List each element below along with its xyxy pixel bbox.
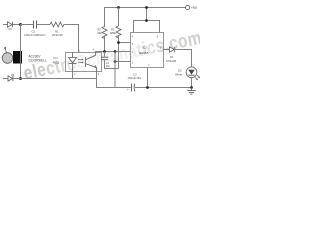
wire emitter down to ground rail	[97, 79, 116, 88]
IC2 pin1 wire to ground rail	[147, 68, 149, 88]
doorbell (gray gong + black coil box)	[2, 53, 13, 64]
resistor R3	[118, 8, 120, 27]
svg-text:+9V: +9V	[191, 6, 198, 10]
svg-text:IC2: IC2	[142, 46, 147, 50]
wire pin7 (y51)	[96, 51, 131, 53]
wire doorbell vertical	[20, 25, 22, 79]
wire down to ground rail	[114, 52, 116, 88]
wire pin6 (y42)	[119, 42, 131, 44]
svg-text:NE555: NE555	[139, 51, 149, 55]
ground symbol	[187, 88, 195, 95]
opto pin3 stub down	[96, 72, 98, 79]
+9V terminal	[186, 5, 190, 9]
opto light arrows	[78, 59, 84, 64]
wire pin3 out	[164, 49, 170, 51]
doorbell striker	[5, 49, 6, 53]
pins 4/8 supply staple	[146, 8, 148, 21]
wire pin2 (y61)	[115, 61, 131, 63]
wire D1 to LED corner	[175, 50, 192, 67]
svg-text:DOORBELL: DOORBELL	[29, 58, 48, 62]
svg-text:+: +	[127, 88, 129, 92]
svg-text:4N25: 4N25	[53, 61, 60, 65]
node R2 join	[103, 50, 106, 53]
node R3/pin6	[117, 41, 120, 44]
node pin1/rail	[146, 86, 149, 89]
svg-text:IC1: IC1	[54, 56, 59, 60]
opto phototransistor	[86, 53, 97, 72]
LED D2	[186, 67, 197, 78]
diode D1	[170, 47, 175, 52]
opto pin4 stub to top wire	[95, 52, 97, 53]
wire AC line in (top left)	[3, 24, 8, 26]
svg-text:100uF/16V: 100uF/16V	[128, 76, 142, 80]
wire R1 to opto (corner down)	[64, 25, 79, 53]
wire C1 to R1	[37, 24, 51, 26]
opto-coupler IC1 box	[66, 53, 102, 72]
node pin2	[114, 60, 117, 63]
LED emission arrows	[195, 75, 200, 80]
capacitor C3 (polarized, in rail)	[132, 84, 135, 92]
svg-text:40k: 40k	[97, 31, 102, 35]
resistor R1	[50, 22, 64, 27]
+9V supply rail	[104, 7, 185, 9]
diode D4	[8, 76, 13, 81]
svg-text:2K2/1W: 2K2/1W	[52, 33, 63, 37]
resistor R2	[104, 8, 106, 27]
node R3 cross	[114, 50, 117, 53]
capacitor C2	[104, 52, 106, 57]
LED to rail	[191, 78, 193, 88]
opto LED	[69, 53, 77, 72]
svg-text:100nF/400VAC: 100nF/400VAC	[24, 33, 46, 37]
opto pin2 stub down	[72, 72, 74, 79]
svg-text:White: White	[175, 72, 183, 76]
node LED/rail	[190, 86, 193, 89]
wire node to C1	[21, 24, 34, 26]
wire bottom left	[3, 78, 8, 80]
svg-text:680k: 680k	[110, 31, 116, 35]
svg-text:10n: 10n	[106, 65, 111, 68]
capacitor C1	[34, 21, 37, 29]
node rail R3 junction	[117, 6, 120, 9]
ground rail bottom	[115, 87, 131, 89]
IC2 NE555 box	[131, 33, 164, 68]
node B junction	[19, 77, 22, 80]
wire bottom run to opto pins	[13, 78, 97, 80]
svg-text:1N4148: 1N4148	[166, 59, 177, 63]
diode D3	[8, 22, 13, 27]
wire diode to node	[12, 24, 19, 26]
node A junction	[19, 23, 22, 26]
